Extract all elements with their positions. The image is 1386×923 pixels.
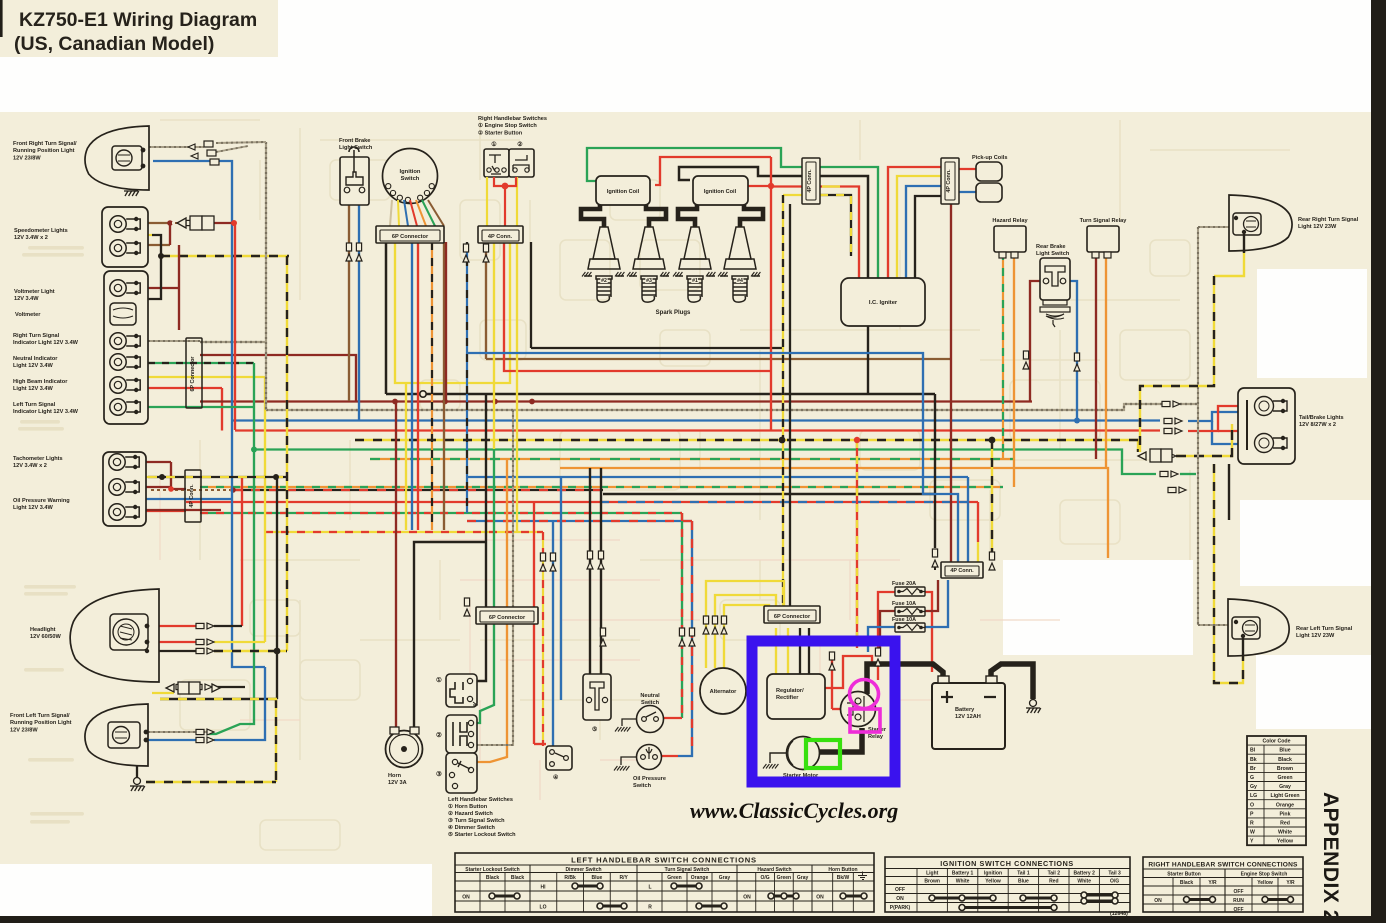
svg-text:Running Position Light: Running Position Light: [13, 148, 75, 154]
wire black vertical x386: [385, 242, 388, 394]
wire blue fuse3 right: [925, 580, 948, 627]
label rhs numbers2: [517, 141, 523, 148]
wire red oil lamp stub: [146, 510, 186, 512]
svg-text:Ignition Coil: Ignition Coil: [607, 189, 640, 195]
wire thin starter motor ground lead: [770, 753, 787, 763]
starter relay: [841, 692, 876, 727]
label oil pressure switch: [633, 776, 666, 789]
wire maroon vertical x1030 rear brake: [1030, 281, 1040, 401]
svg-text:Rear Right Turn Signal: Rear Right Turn Signal: [1298, 217, 1359, 223]
fuse 10A a: [895, 607, 925, 616]
wire brown vertical x349 (front brake sw): [348, 205, 350, 401]
wire green dashed stub y363: [148, 362, 254, 364]
svg-text:③: ③: [436, 770, 442, 778]
ignition switch connections table: [885, 857, 1130, 912]
wire thick black battery- ground: [991, 664, 1033, 699]
svg-text:Light 12V 23W: Light 12V 23W: [1298, 224, 1337, 230]
wire green coil top: [587, 148, 878, 278]
svg-text:OFF: OFF: [1234, 907, 1244, 913]
wire black vertical x1229 below tail: [1228, 464, 1230, 520]
wire black rr-lamp down: [1243, 232, 1245, 252]
wire red relay left: [832, 708, 841, 710]
svg-text:Yellow: Yellow: [1257, 880, 1273, 886]
svg-text:R/Y: R/Y: [619, 875, 628, 881]
wire green/red vertical x682: [681, 513, 683, 718]
label starter relay: [868, 727, 887, 740]
wire black fl ground: [136, 746, 138, 777]
wire black bus y494: [603, 493, 935, 495]
wire yellow alternator L2: [715, 595, 776, 668]
svg-text:Oil Pressure: Oil Pressure: [633, 776, 666, 782]
wire yellow U bundle: [395, 242, 510, 383]
wire black vertical x601 (box5): [600, 468, 602, 674]
label 6p connector vertical box: [186, 338, 202, 408]
wire red coil2 junction vertical: [770, 157, 772, 430]
wire red stub neutral sw: [664, 717, 682, 719]
wire red vertical x418: [417, 242, 419, 530]
wire black bus y348: [531, 347, 783, 349]
svg-text:Horn Button: Horn Button: [828, 867, 857, 873]
wire maroon tach lamp1: [146, 461, 171, 463]
wire orange/green bus y487: [200, 486, 1003, 488]
svg-text:Relay: Relay: [868, 734, 884, 740]
svg-text:L: L: [648, 885, 651, 891]
svg-text:LEFT HANDLEBAR SWITCH CONNE: LEFT HANDLEBAR SWITCH CONNECTIONS: [571, 856, 757, 865]
junction open circle y394: [420, 391, 426, 397]
svg-text:White: White: [1077, 879, 1091, 885]
svg-text:R: R: [648, 905, 652, 911]
svg-text:OFF: OFF: [1234, 889, 1244, 895]
IC igniter box: [841, 278, 925, 326]
label headlight: [30, 627, 62, 640]
right handlebar connections table: [1143, 857, 1303, 913]
svg-text:Black: Black: [1278, 757, 1292, 763]
wire orange/green bus y459: [370, 458, 1014, 460]
wire black connector row y687: [214, 686, 245, 688]
svg-text:Black: Black: [511, 875, 525, 881]
left switch box 1 (horn button): [446, 674, 477, 707]
connectors alternator yellows: [703, 616, 709, 634]
svg-text:① Horn Button: ① Horn Button: [448, 803, 488, 810]
wire yellow/black vertical x783: [782, 195, 784, 610]
wire red branch tail lower: [1218, 430, 1240, 432]
battery: [932, 683, 1005, 749]
svg-text:12V 3.4W x 2: 12V 3.4W x 2: [13, 463, 47, 469]
wire yellow/black vertical x287: [286, 256, 288, 651]
junction bus477 dots: [159, 474, 165, 480]
svg-text:KZ750-E1 Wiring Diagram: KZ750-E1 Wiring Diagram: [19, 9, 257, 31]
pickup coil 1: [976, 162, 1002, 181]
label alternator: [710, 689, 738, 695]
wire blue branch tail lower: [1212, 421, 1240, 444]
wire gray fr lamp: [149, 146, 204, 148]
svg-text:P(PARK): P(PARK): [890, 905, 911, 911]
wire red vertical x832: [831, 656, 833, 709]
wire maroon tach lamp2: [146, 486, 171, 488]
wire yellow/black bus y440: [355, 440, 1138, 452]
horn: [386, 731, 423, 768]
wire brown bus y359: [486, 358, 951, 360]
wire maroon vertical x1096 tsrelay: [1095, 252, 1097, 459]
wire yellow voltm stub: [129, 298, 143, 300]
svg-text:APPENDIX 2: APPENDIX 2: [1319, 792, 1342, 922]
wire red stub coil2: [748, 185, 771, 187]
title cream box: [0, 0, 278, 57]
wire orange bus y468: [560, 468, 1108, 558]
wire yellow/red vertical x543: [542, 532, 544, 746]
wire yellow vertical x406: [405, 383, 407, 530]
dimmer switch box (4): [546, 746, 572, 770]
wire gray vertical x513 to switches: [477, 410, 513, 745]
wire black/yellow bus y699: [160, 698, 277, 700]
svg-text:Starter Lockout Switch: Starter Lockout Switch: [465, 867, 519, 873]
pickup coil 2: [976, 183, 1002, 202]
junction green x254: [251, 447, 257, 453]
svg-text:6P Connector: 6P Connector: [489, 615, 526, 621]
svg-text:Light 12V 23W: Light 12V 23W: [1296, 633, 1335, 639]
label starter motor: [783, 773, 819, 779]
wire maroon vertical x446: [445, 242, 447, 401]
wire yellow tach stub: [128, 476, 148, 478]
wire yellow stub y693: [152, 692, 174, 694]
wire brown speedo lamp1: [140, 222, 168, 224]
wire green stub right y474: [1180, 473, 1196, 475]
svg-text:Orange: Orange: [691, 875, 709, 881]
wire blue vertical x359 (front brake sw): [358, 205, 360, 420]
wire maroon fuse2 left: [880, 611, 897, 648]
svg-text:④ Dimmer Switch: ④ Dimmer Switch: [448, 824, 496, 831]
wire green vertical x494 to hazard sw: [477, 449, 494, 723]
svg-text:O: O: [1250, 802, 1254, 808]
wire black connector drop x935: [934, 563, 936, 570]
svg-text:Hazard Relay: Hazard Relay: [992, 218, 1028, 224]
black bar right edge: [1371, 0, 1386, 923]
label oil pressure warn: [13, 498, 70, 511]
wire black vertical x486: [477, 394, 486, 681]
svg-text:Y/R: Y/R: [1286, 880, 1295, 886]
fuse 20A: [895, 587, 925, 596]
svg-text:Alternator: Alternator: [710, 689, 738, 695]
white patch right lower: [1256, 655, 1372, 729]
4P conn vertical (pickup): [941, 158, 959, 204]
svg-text:Green: Green: [667, 875, 681, 881]
svg-text:① Engine Stop Switch: ① Engine Stop Switch: [478, 122, 537, 129]
annotation magenta rect: [850, 709, 880, 732]
label horn: [388, 773, 407, 786]
junction tach maroon: [168, 486, 174, 492]
wire maroon tach vertical: [171, 462, 186, 489]
svg-text:②: ②: [436, 731, 442, 739]
svg-text:Dimmer Switch: Dimmer Switch: [565, 867, 601, 873]
front right turn signal lamp: [85, 126, 149, 190]
wire blue fl seg: [214, 667, 265, 740]
wire maroon vertical x951: [950, 202, 952, 563]
wire gray bus y410: [266, 404, 1162, 410]
wire green ind stub lt: [148, 406, 254, 408]
ignition coil 2: [693, 176, 748, 205]
junction speedo: [167, 220, 173, 226]
label 4p conn bottomright: [950, 568, 974, 574]
svg-text:Light Green: Light Green: [1270, 793, 1299, 799]
wire blue/black vertical x467: [466, 242, 468, 513]
svg-text:White: White: [1278, 830, 1292, 836]
wire red vertical x242: [241, 477, 243, 626]
wire blue bus y353: [467, 353, 958, 563]
svg-text:#2: #2: [601, 278, 607, 284]
junction red tail: [1247, 403, 1253, 409]
svg-text:Pink: Pink: [1280, 811, 1291, 817]
white patch bottom left: [0, 864, 432, 917]
wire gray diag2: [216, 146, 248, 152]
wire black vertical x277: [276, 477, 278, 699]
svg-text:White: White: [956, 879, 970, 885]
svg-text:4P Conn.: 4P Conn.: [807, 169, 813, 193]
svg-text:Black: Black: [1180, 880, 1194, 886]
svg-text:Tachometer Lights: Tachometer Lights: [13, 456, 63, 462]
wire rhs red fan: [494, 177, 516, 228]
wire orange vertical x1106 tsrelay: [1105, 252, 1107, 468]
wire blue fl lamp: [148, 739, 196, 741]
label ic igniter: [869, 300, 898, 306]
junction maroon bus dots: [392, 399, 398, 405]
wire black vertical x935: [934, 394, 936, 548]
svg-text:Voltmeter Light: Voltmeter Light: [14, 289, 55, 295]
wire red headlight hi: [143, 625, 196, 627]
wire red 4Pconn to coil junction: [504, 242, 770, 371]
junction red coil2: [768, 183, 774, 189]
svg-text:Turn Signal Switch: Turn Signal Switch: [665, 867, 710, 873]
svg-text:LO: LO: [540, 905, 547, 911]
svg-text:②: ②: [517, 141, 523, 148]
wire thick coil1 right: [646, 205, 666, 227]
label regulator: [776, 688, 804, 701]
wire black speedo stub: [152, 235, 161, 256]
wire yellow headlight lo seg: [214, 641, 265, 643]
svg-text:Light 12V 3.4W: Light 12V 3.4W: [13, 505, 54, 511]
svg-text:①: ①: [491, 141, 497, 148]
svg-text:Right Handlebar Switches: Right Handlebar Switches: [478, 116, 547, 122]
svg-text:RUN: RUN: [1233, 898, 1244, 904]
wire black vertical x590 (box5): [589, 468, 591, 674]
wire blue bus y420: [232, 419, 1160, 421]
hazard relay box: [994, 226, 1026, 252]
black bar bottom edge: [0, 916, 1386, 923]
wire gray vertical x1198: [1197, 227, 1199, 625]
junction blue rear brake: [1074, 418, 1080, 424]
wire red/blue bus y502b: [600, 501, 978, 503]
wire black bus y394: [386, 393, 935, 396]
wire gray indicator stub: [148, 340, 200, 342]
wire yellow alternator L3: [724, 605, 769, 668]
svg-text:(US, Canadian Model): (US, Canadian Model): [14, 33, 214, 55]
svg-text:Hazard Switch: Hazard Switch: [757, 867, 791, 873]
wire maroon stub y355: [200, 355, 356, 402]
svg-text:Tail 2: Tail 2: [1048, 871, 1061, 877]
label 6p conn bottom: [489, 615, 526, 621]
wire maroon bus y401: [200, 400, 1032, 402]
wire gray stub y342: [200, 341, 266, 343]
wire yellow stub y195: [783, 194, 804, 196]
wire red pickup stub: [959, 168, 978, 170]
wire gray stub to rr-signal: [1180, 403, 1198, 405]
svg-text:ON: ON: [743, 895, 751, 901]
svg-text:Starter Button: Starter Button: [1167, 872, 1201, 878]
svg-text:HI: HI: [541, 885, 547, 891]
wire gray vertical x266: [265, 142, 267, 410]
spark plug #2: [584, 227, 624, 302]
wire thick coil2 right: [740, 205, 763, 227]
wire black vertical x790: [789, 204, 791, 610]
6P connector (regulator): [764, 606, 820, 623]
svg-text:Neutral: Neutral: [640, 693, 660, 699]
4P conn (handlebar): [478, 226, 523, 243]
svg-text:R: R: [1250, 821, 1254, 827]
spark plug #3: [629, 227, 669, 302]
wire yellow ind stub2: [127, 370, 148, 372]
annotation magenta circle: [850, 680, 879, 709]
wire black igniter bottom: [867, 326, 869, 394]
svg-text:Running Position Light: Running Position Light: [10, 720, 72, 726]
label neutral ind: [13, 356, 58, 369]
headlight: [70, 589, 159, 682]
wire blue/red bus y521: [467, 520, 692, 522]
svg-text:Fuse 10A: Fuse 10A: [892, 601, 916, 607]
svg-text:Headlight: Headlight: [30, 627, 56, 633]
wire maroon speedo to junction: [214, 222, 233, 224]
connectors vertical set: [346, 243, 352, 261]
wire red bus y502: [186, 501, 600, 503]
wire yellow rr-lamp segment: [1214, 252, 1244, 276]
wire yellow regulator feed1: [775, 628, 777, 674]
label rear brake switch: [1036, 244, 1070, 257]
wire yellow/black bus y651: [214, 650, 287, 652]
svg-text:③ Turn Signal Switch: ③ Turn Signal Switch: [448, 817, 505, 824]
right handlebar switch 2: [509, 149, 534, 177]
wire red through 4P to igniter: [771, 187, 859, 279]
svg-text:Gray: Gray: [719, 875, 731, 881]
junction black y256: [158, 253, 164, 259]
label voltmeter: [15, 312, 41, 318]
svg-text:Front Right Turn Signal/: Front Right Turn Signal/: [13, 141, 77, 147]
svg-text:Switch: Switch: [633, 783, 652, 789]
svg-text:Indicator Light 12V 3.4W: Indicator Light 12V 3.4W: [13, 409, 79, 415]
svg-text:G: G: [1250, 775, 1254, 781]
svg-text:Ignition: Ignition: [984, 871, 1002, 877]
wire maroon vertical x170: [169, 223, 171, 245]
svg-text:ON: ON: [1154, 898, 1162, 904]
label neutral switch: [640, 693, 660, 706]
wire gray diag: [216, 142, 266, 143]
wire blue pickup feed: [906, 186, 943, 278]
svg-text:Right Turn Signal: Right Turn Signal: [13, 333, 60, 339]
svg-text:Blue: Blue: [1279, 748, 1290, 754]
svg-text:Left Turn Signal: Left Turn Signal: [13, 402, 56, 408]
svg-text:Left Handlebar Switches: Left Handlebar Switches: [448, 797, 513, 803]
svg-text:Light: Light: [926, 871, 939, 877]
svg-text:Orange: Orange: [1276, 802, 1294, 808]
svg-text:Br: Br: [1250, 766, 1256, 772]
wire blue fuse3 left: [868, 627, 897, 652]
wire blue vertical x232: [153, 161, 265, 667]
wire pale brown dashed: [172, 222, 186, 224]
annotation blue box: [752, 641, 895, 782]
wire yellow/black vertical x992: [991, 440, 993, 552]
label lhs list: [448, 797, 516, 838]
svg-text:R/Bk: R/Bk: [564, 875, 576, 881]
wire blue bus y477: [467, 476, 968, 478]
wire green/red bus y513: [200, 512, 682, 514]
wire thick coil2 left: [678, 205, 697, 227]
svg-text:12V 23/8W: 12V 23/8W: [13, 155, 41, 161]
connectors horizontal set: [196, 623, 214, 629]
wire maroon voltm stub: [148, 287, 179, 289]
spark plug #4: [720, 227, 760, 302]
svg-text:12V 23/8W: 12V 23/8W: [10, 727, 38, 733]
wire orange vertical x507 to turnsig sw: [477, 459, 507, 762]
svg-text:Rear Left Turn Signal: Rear Left Turn Signal: [1296, 626, 1353, 632]
junction maroon y490: [230, 487, 236, 493]
wire red vertical x222: [221, 388, 223, 431]
svg-text:P: P: [1250, 811, 1254, 817]
label ignition coil 2: [704, 189, 737, 195]
wire yellow vertical x494: [493, 242, 495, 449]
wire brown vertical x444: [443, 242, 445, 530]
wire red vertical x534: [533, 502, 535, 744]
svg-text:Pick-up Coils: Pick-up Coils: [972, 155, 1007, 161]
svg-text:12V 3.4W: 12V 3.4W: [14, 296, 39, 302]
wire gray fl lamp: [148, 731, 207, 733]
svg-text:#4: #4: [737, 278, 743, 284]
speedometer cluster: [102, 207, 148, 267]
svg-text:Y/R: Y/R: [1208, 880, 1217, 886]
svg-text:Brown: Brown: [1277, 766, 1293, 772]
wire red stub y388: [148, 387, 222, 389]
svg-text:Fuse 20A: Fuse 20A: [892, 581, 916, 587]
svg-text:OFF: OFF: [895, 887, 905, 893]
white patch bottom middle-right: [1003, 560, 1193, 655]
wire blue vertical x412: [411, 242, 413, 530]
wire rhs yellow fan: [487, 177, 517, 228]
label tail brake lights: [1299, 415, 1344, 428]
ground fr signal: [124, 183, 139, 197]
wire yellow regulator feed2: [787, 628, 789, 674]
wire red/yellow vertical x857 to relay: [856, 440, 858, 648]
label rhs numbers: [491, 141, 497, 148]
svg-text:4P Conn.: 4P Conn.: [189, 484, 195, 508]
svg-text:Light 12V 3.4W: Light 12V 3.4W: [13, 386, 54, 392]
svg-text:Light Switch: Light Switch: [1036, 251, 1070, 257]
svg-text:Speedometer Lights: Speedometer Lights: [14, 228, 68, 234]
white patch right mid: [1240, 500, 1372, 586]
svg-text:⑤: ⑤: [592, 726, 598, 733]
left switch box 2 (hazard): [446, 715, 477, 753]
svg-text:Battery 2: Battery 2: [1073, 871, 1095, 877]
wire red vertical x978: [977, 502, 979, 542]
right handlebar switch 1: [484, 149, 509, 177]
label ignition switch: [400, 169, 421, 182]
wire blue vertical x561: [560, 477, 562, 700]
svg-text:Tail 1: Tail 1: [1017, 871, 1030, 877]
svg-text:Neutral Indicator: Neutral Indicator: [13, 356, 58, 362]
svg-text:6P Connector: 6P Connector: [774, 614, 811, 620]
wire gray stub rr lamp: [1198, 226, 1232, 228]
wire yellow speedo stub: [130, 234, 152, 236]
svg-text:② Starter Button: ② Starter Button: [478, 129, 523, 136]
svg-text:Voltmeter: Voltmeter: [15, 312, 41, 318]
wire maroon tach stub lower: [146, 509, 221, 511]
wire black fr ground: [130, 165, 132, 182]
spark plug #1: [675, 227, 715, 302]
